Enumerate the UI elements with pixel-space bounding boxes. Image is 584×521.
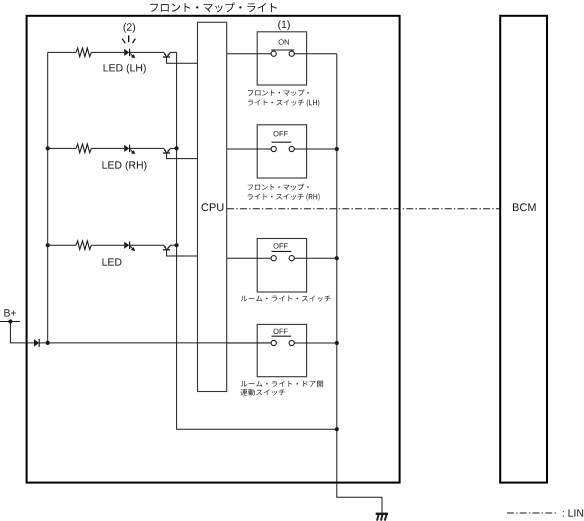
node: rail to B+ line <box>46 341 50 345</box>
CPU U1 box <box>198 22 227 391</box>
CPU label <box>202 203 224 211</box>
switch SW2 right contact <box>289 146 294 151</box>
wire: CPU to SW1 left contact <box>227 53 271 55</box>
resistor R1 <box>76 48 91 57</box>
switch SW4 box <box>257 324 306 376</box>
switch SW3 left contact <box>271 256 276 261</box>
wire: CPU to SW2 left contact <box>227 148 271 150</box>
switch SW2 open contact bar <box>272 141 292 143</box>
switch SW2 state label OFF <box>274 131 288 136</box>
switch SW4 left contact <box>271 340 276 345</box>
LED light rays (illumination mark) <box>122 39 125 44</box>
transistor Q2 (driver) with base wire to CPU <box>164 148 167 152</box>
switch SW4 open contact bar <box>272 335 292 337</box>
switch SW1 right contact <box>289 51 294 56</box>
wire: LED D1 to transistor Q1 <box>130 51 164 53</box>
caption: front map light switch LH line1 <box>248 89 309 96</box>
node: SW3 to ground rail junction <box>335 256 339 260</box>
caption: room light switch <box>241 296 331 302</box>
switch SW3 right contact <box>289 256 294 261</box>
LIN bus line (dash-dot) CPU to BCM <box>227 208 500 210</box>
title: front map light (フロント・マップ・ライト) <box>150 3 277 13</box>
wire: SW3 right contact to ground rail <box>294 257 337 259</box>
switch SW4 right contact <box>289 340 294 345</box>
label LED (RH) <box>103 161 147 171</box>
transistor Q1 (driver) with base wire to CPU <box>164 52 167 56</box>
LED D1 (LED (LH)) <box>124 49 129 56</box>
node B+ terminal <box>8 319 12 323</box>
switch SW1 left contact <box>271 51 276 56</box>
label LED <box>103 258 122 265</box>
caption: room light door-linked switch line2 <box>241 389 285 396</box>
node: SW2 to ground rail junction <box>335 147 339 151</box>
caption: front map light switch RH line1 <box>248 184 309 191</box>
B+ terminal stub wire <box>0 321 20 323</box>
BCM box <box>500 16 547 483</box>
switch SW2 box <box>257 125 306 178</box>
switch SW2 left contact <box>271 146 276 151</box>
resistor R2 <box>76 144 91 153</box>
node: rail to LED(RH) branch <box>46 146 50 150</box>
switch SW3 state label OFF <box>274 243 288 248</box>
label (2) <box>124 23 136 33</box>
wire: rail to resistor R1 (row 1) <box>48 51 76 53</box>
wire: SW2 right contact to ground rail <box>294 148 337 150</box>
switch SW1 box <box>257 32 306 85</box>
wire: SW4 right contact to ground rail <box>294 342 337 344</box>
switch SW1 state label ON <box>279 39 289 44</box>
LED D3 (LED) <box>124 242 129 249</box>
wire: LED D2 to transistor Q2 <box>130 147 164 149</box>
switch SW3 box <box>257 239 306 293</box>
label LED (LH) <box>104 64 146 74</box>
label (1) <box>278 20 290 30</box>
legend label : LIN <box>563 509 583 516</box>
transistor Q3 (driver) with base wire to CPU <box>164 245 167 249</box>
wire: rail to resistor R2 (row 2) <box>48 147 76 149</box>
emitter rail wire (transistors to ground rail) <box>177 52 337 429</box>
switch SW3 open contact bar <box>272 250 292 252</box>
switch SW4 state label OFF <box>274 329 288 334</box>
wire: rail to resistor R3 (row 3) <box>48 244 76 246</box>
wire: LED D3 to transistor Q3 <box>130 244 164 246</box>
caption: room light door-linked switch line1 <box>241 381 323 387</box>
ground (chassis) symbol <box>376 513 388 515</box>
resistor R3 <box>76 241 91 250</box>
node: Q3 emitter junction <box>175 243 179 247</box>
switch SW1 closed contact bar <box>271 49 294 51</box>
node: rail to LED branch <box>46 243 50 247</box>
front map light unit box <box>27 16 400 483</box>
wire: resistor R3 to LED D3 <box>91 244 124 246</box>
wire: resistor R2 to LED D2 <box>91 147 124 149</box>
wire: CPU to SW3 left contact <box>227 257 271 259</box>
diode D4 (reverse-protection) <box>34 339 39 347</box>
wire: diode to switch 4 contact (B+ line across) <box>39 342 271 344</box>
left supply rail wire <box>47 52 49 343</box>
node: SW4 to ground rail junction <box>335 341 339 345</box>
node: emitter rail to ground rail <box>335 427 339 431</box>
wire: CPU to SW4 left contact <box>227 342 271 344</box>
node: Q2 emitter junction <box>175 146 179 150</box>
B+ label <box>4 309 16 316</box>
legend: LIN dash-dot sample line <box>507 512 558 514</box>
wire: B+ down and right to diode <box>10 322 34 343</box>
caption: front map light switch LH line2 <box>248 99 319 106</box>
wire: SW1 right contact to ground rail <box>294 53 337 55</box>
wire: resistor R1 to LED D1 <box>91 51 124 53</box>
LED D2 (LED (RH)) <box>124 145 129 152</box>
caption: front map light switch RH line2 <box>248 193 320 200</box>
BCM label <box>513 203 536 211</box>
ground rail wire (switch commons) down to ground <box>337 54 382 513</box>
